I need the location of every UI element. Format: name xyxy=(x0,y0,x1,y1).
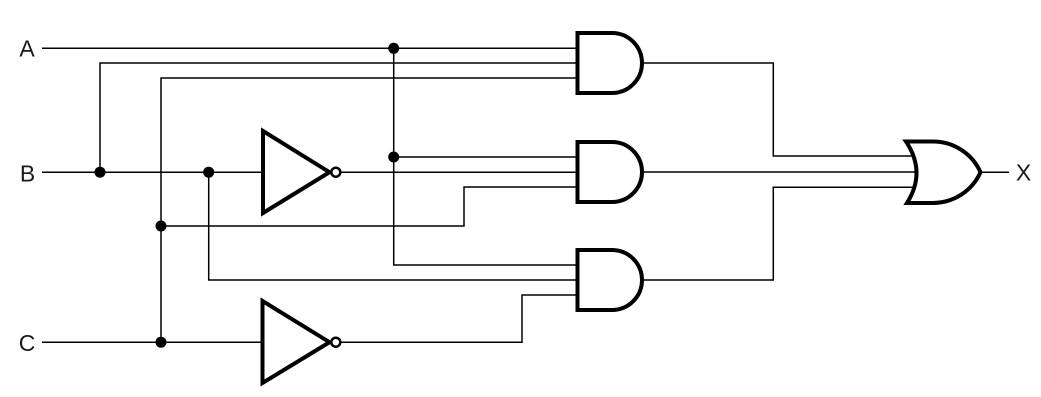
svg-text:B: B xyxy=(20,161,35,187)
wire AND2 out to OR pin2 xyxy=(642,171,918,173)
junction dot A branch at (394,157) xyxy=(388,152,399,163)
svg-text:A: A xyxy=(19,36,35,62)
wire AND3 out to OR pin3 xyxy=(642,187,916,280)
svg-text:X: X xyxy=(1016,160,1031,186)
svg-text:C: C xyxy=(19,330,36,356)
NOT gate U1 triangle xyxy=(263,131,330,213)
wire AND1 out to OR pin1 xyxy=(642,63,916,156)
NOT gate U2 triangle xyxy=(263,301,330,383)
NOT gate U2 bubble xyxy=(331,338,340,347)
wire NOT2 out to AND3 pin3 xyxy=(340,295,579,342)
wire C branch to AND2 pin3 xyxy=(161,187,579,226)
wire C input xyxy=(42,341,265,343)
NOT gate U1 bubble xyxy=(331,168,340,177)
junction dot C at x=161 xyxy=(156,337,167,348)
wire B to AND1 pin2 xyxy=(100,63,579,172)
wire B input xyxy=(42,171,266,173)
OR gate U6 xyxy=(906,142,981,204)
junction dot B at x=100 xyxy=(95,167,106,178)
AND gate U5 bottom xyxy=(578,250,643,310)
AND gate U4 middle xyxy=(578,142,643,202)
junction dot B at x=209 xyxy=(203,167,214,178)
junction dot A at x=394 xyxy=(388,43,399,54)
junction dot C branch at (161,226) xyxy=(156,221,167,232)
wire B to AND3 pin2 xyxy=(209,172,579,280)
wire OR output xyxy=(981,171,1010,173)
wire NOT1 out to AND2 pin2 xyxy=(340,171,579,173)
wire C to AND1 pin3 xyxy=(161,78,579,342)
AND gate U3 top xyxy=(578,33,643,93)
wire A input xyxy=(42,47,579,49)
wire A branch to AND2 pin1 xyxy=(394,156,579,158)
wire A to AND3 pin1 xyxy=(394,48,579,265)
